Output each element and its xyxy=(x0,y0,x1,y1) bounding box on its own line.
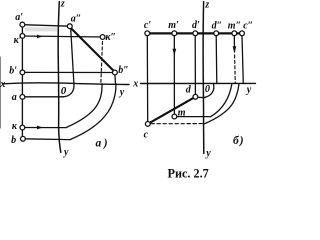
scan smudge under a' line xyxy=(25,27,58,31)
point circle m' xyxy=(172,31,177,36)
svg-text:x: x xyxy=(0,79,5,90)
arc for point m xyxy=(211,84,232,117)
point circle c xyxy=(145,122,150,127)
svg-text:a′: a′ xyxy=(15,12,23,23)
vertical line c'-c xyxy=(146,36,148,122)
horizontal line from a xyxy=(22,96,63,98)
segment a''-b'' (profile projection) xyxy=(71,28,114,71)
arrow on k line xyxy=(37,126,43,130)
top row line c'-c'' xyxy=(147,32,242,34)
svg-text:y: y xyxy=(63,147,69,158)
vertical line below m'' (solid above arrow) xyxy=(233,36,235,53)
svg-text:c′: c′ xyxy=(144,20,151,31)
svg-text:a: a xyxy=(12,92,17,103)
point circle d'' xyxy=(214,31,219,36)
svg-text:Рис. 2.7: Рис. 2.7 xyxy=(168,167,209,181)
point circle a' xyxy=(20,22,25,27)
projection line k'-k'' xyxy=(22,36,102,37)
arrow on m' line xyxy=(173,49,177,56)
vertical line below d'' xyxy=(215,36,218,84)
arc for point d xyxy=(204,84,214,98)
arrow on k'-k'' line xyxy=(37,35,43,39)
horizontal line from b xyxy=(22,138,70,141)
svg-text:к″: к″ xyxy=(105,32,116,43)
svg-text:a″: a″ xyxy=(71,14,82,25)
svg-text:c: c xyxy=(144,129,149,140)
svg-text:а): а) xyxy=(96,138,111,150)
svg-text:m: m xyxy=(178,107,186,118)
point circle c' xyxy=(145,31,150,36)
dashed horizontal line from c xyxy=(151,123,205,125)
svg-text:m″: m″ xyxy=(228,20,241,31)
point circle m xyxy=(172,114,177,119)
point circle d xyxy=(193,94,198,99)
svg-text:к′: к′ xyxy=(14,35,22,46)
vertical connector line a'-b (left column) xyxy=(21,25,23,139)
svg-text:к: к xyxy=(12,121,18,132)
svg-text:б): б) xyxy=(233,135,245,147)
arrow on m'' line xyxy=(233,46,237,53)
svg-text:y: y xyxy=(119,87,125,98)
svg-text:z: z xyxy=(204,0,209,11)
z-axis (diagram b) xyxy=(202,2,205,154)
point circle b'' xyxy=(113,70,118,75)
z-axis (diagram a) xyxy=(58,2,61,153)
svg-text:b″: b″ xyxy=(118,65,129,76)
svg-text:b: b xyxy=(11,135,16,146)
scan edge artifact left border xyxy=(0,57,1,128)
svg-text:d: d xyxy=(186,85,192,96)
outer arc for point b xyxy=(70,84,116,140)
svg-text:m′: m′ xyxy=(168,20,179,31)
svg-text:y: y xyxy=(246,85,252,96)
vertical line below b'' xyxy=(114,75,117,84)
vertical line m'-m xyxy=(173,36,175,115)
svg-text:b′: b′ xyxy=(9,65,17,76)
point circle b xyxy=(21,136,26,141)
x-axis (diagram b) xyxy=(141,82,256,84)
x-axis (diagram a) xyxy=(3,83,129,85)
svg-text:0: 0 xyxy=(205,84,210,95)
dashed vertical line below k'' xyxy=(101,42,103,84)
inner arc for point k xyxy=(66,84,102,128)
svg-text:z: z xyxy=(60,0,65,10)
projection line b'-b'' xyxy=(22,71,115,73)
point circle a'' xyxy=(67,24,72,29)
point circle m'' xyxy=(232,31,237,36)
small arc for point a xyxy=(63,86,74,97)
point circle k' xyxy=(20,34,25,39)
svg-text:y: y xyxy=(205,148,211,159)
vertical projection line below a'' xyxy=(71,28,74,85)
segment c-d (horizontal projection) xyxy=(148,97,195,124)
svg-text:d″: d″ xyxy=(212,20,223,31)
vertical line d'-d xyxy=(194,36,196,95)
point circle a xyxy=(20,95,25,100)
horizontal line from k xyxy=(22,127,66,129)
point circle k'' xyxy=(100,35,105,40)
svg-text:c″: c″ xyxy=(243,20,253,31)
point circle c'' xyxy=(240,31,245,36)
point circle b' xyxy=(20,70,25,75)
vertical line below c'' xyxy=(242,36,243,84)
dashed lower part of m'' line xyxy=(234,55,237,84)
projection line a'-a'' xyxy=(22,25,69,27)
point circle d' xyxy=(193,31,198,36)
svg-text:d′: d′ xyxy=(192,20,200,31)
horizontal stub from d to axis xyxy=(197,96,206,98)
horizontal line from m xyxy=(177,116,211,118)
point circle k xyxy=(20,125,25,130)
svg-text:x: x xyxy=(132,79,138,90)
svg-text:0: 0 xyxy=(61,85,67,97)
arc for point c xyxy=(205,84,239,124)
